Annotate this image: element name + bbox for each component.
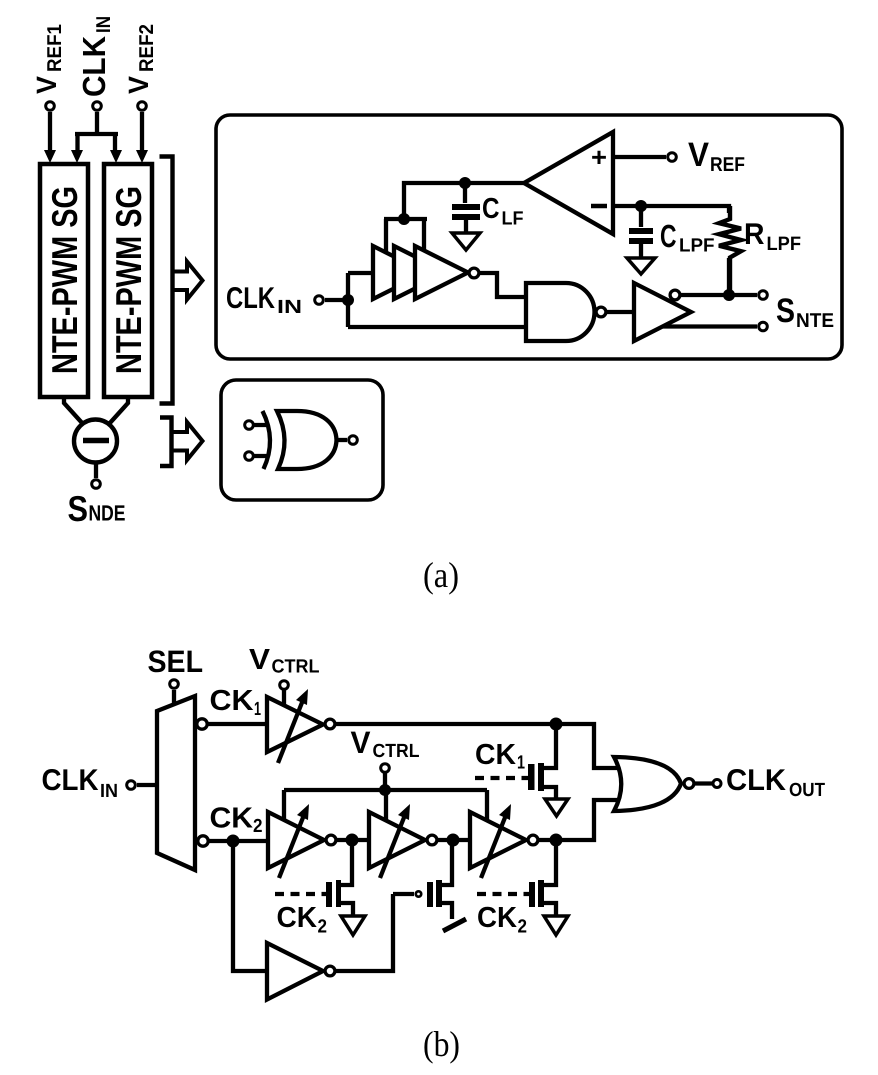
svg-text:NDE: NDE — [89, 501, 126, 526]
inverter chain T1 — [373, 246, 426, 299]
block NTE-PWM SG 2 — [104, 164, 152, 397]
wire NOR out — [695, 781, 712, 785]
svg-text:IN: IN — [93, 16, 115, 33]
terminal xor in top — [245, 421, 254, 430]
svg-text:REF: REF — [710, 154, 745, 176]
wire VREF1 arrow — [48, 112, 52, 151]
op-amp U1 — [524, 132, 613, 234]
variable inverter row2 first — [268, 812, 324, 868]
node CLKIN b label — [42, 764, 119, 802]
wire CLKIN b lead — [137, 783, 157, 787]
terminal SEL — [170, 680, 179, 689]
node CK2 label — [210, 803, 263, 838]
box a rounded rect — [216, 115, 842, 359]
node RLPF label — [744, 218, 801, 255]
bubble inverter row2 third — [528, 835, 538, 845]
inverter chain T2 — [394, 246, 447, 299]
svg-text:V: V — [351, 725, 371, 760]
node CLKIN rotated label — [76, 16, 115, 97]
node SNTE label — [776, 292, 834, 332]
demux trapezoid — [157, 696, 195, 870]
variable inverter row2 second — [369, 812, 425, 868]
transistor M3 pmos pass — [442, 840, 452, 919]
wire block2 to subtractor — [109, 397, 128, 424]
node SNDE label — [68, 488, 126, 529]
svg-text:NTE-PWM SG: NTE-PWM SG — [108, 186, 149, 374]
variable inverter row2 third — [470, 812, 526, 868]
node VREF2 rotated label — [123, 24, 158, 94]
feedback inverter — [267, 943, 323, 1000]
svg-text:(b): (b) — [423, 1024, 460, 1064]
svg-text:C: C — [482, 193, 500, 225]
variable inverter row1 — [267, 697, 323, 752]
capacitor CLF — [463, 183, 467, 203]
svg-text:V: V — [688, 136, 709, 174]
ground M4 — [544, 916, 568, 935]
svg-text:CK: CK — [210, 685, 254, 717]
node CLKOUT label — [726, 764, 825, 801]
node CLF label — [482, 193, 524, 230]
node CK1 label — [210, 685, 262, 720]
node VREF1 rotated label — [31, 24, 66, 94]
node VREF label — [688, 136, 745, 176]
junction VCTRL rail — [379, 784, 391, 796]
ground CLF — [452, 233, 480, 250]
terminal xor out — [349, 436, 358, 445]
wire buffer bottom output — [663, 324, 757, 328]
svg-text:V: V — [123, 76, 154, 94]
wire CLKIN input — [325, 273, 526, 327]
svg-text:SEL: SEL — [148, 644, 204, 679]
box xor rounded rect — [221, 380, 383, 500]
node SEL label — [148, 644, 204, 679]
wire buffer top output — [675, 293, 757, 297]
terminal CLKIN b — [127, 781, 136, 790]
bubble inverter row2 first — [326, 835, 336, 845]
open arrow 1 — [175, 262, 203, 300]
node CK2 M4 label — [477, 902, 527, 938]
bubble inverter row2 second — [427, 835, 437, 845]
terminal VCTRL row1 — [280, 681, 289, 690]
junction M3 drain — [447, 834, 460, 847]
wire CK2 down to feedback inverter — [233, 841, 267, 971]
node CLPF label — [660, 218, 715, 257]
block NTE-PWM SG 1 — [40, 164, 88, 397]
wire opamp minus to RLPF — [613, 206, 729, 213]
junction CK2 feedback — [227, 835, 240, 848]
wire VREF2 arrow — [140, 112, 144, 151]
svg-text:S: S — [776, 292, 795, 330]
svg-text:REF2: REF2 — [136, 24, 158, 72]
terminal VCTRL row2 — [381, 764, 390, 773]
wire inv2 to inv3 — [438, 838, 470, 842]
arrow variable inverter row1 — [278, 700, 303, 763]
terminal SNDE — [92, 480, 101, 489]
wire RLPF to output node — [727, 258, 731, 295]
svg-text:V: V — [249, 644, 271, 676]
wire VCTRL row1 lead — [282, 690, 286, 706]
terminal CK2 out of demux — [198, 836, 208, 846]
ground M1 — [545, 799, 568, 816]
svg-text:IN: IN — [277, 297, 302, 318]
terminal VREF2 — [138, 102, 147, 111]
buffer with complementary outputs — [634, 283, 691, 341]
wire CK1 row — [208, 722, 267, 726]
capacitor CLPF — [639, 206, 643, 227]
terminal CLKOUT — [713, 780, 721, 788]
bubble NOR — [684, 779, 694, 789]
svg-text:R: R — [744, 218, 765, 251]
bubble inverter row1 — [325, 719, 335, 729]
wire supply bar above inverter chain — [384, 219, 427, 252]
svg-text:CLK: CLK — [42, 764, 99, 797]
junction minus node — [635, 200, 647, 212]
junction row2 M4 — [550, 834, 563, 847]
svg-text:OUT: OUT — [789, 780, 825, 801]
NAND gate — [526, 283, 595, 341]
svg-text:S: S — [68, 488, 89, 529]
svg-text:C: C — [660, 218, 677, 254]
terminal xor in bottom — [245, 452, 254, 461]
M3 source slash — [443, 919, 466, 931]
node CK2 M2 label — [277, 902, 328, 938]
node CLKIN label box a — [226, 282, 302, 318]
inverter chain T3 — [415, 246, 468, 299]
terminal CLKIN box a — [315, 296, 324, 305]
resistor RLPF — [719, 206, 741, 295]
wire CLKIN split — [75, 112, 118, 151]
wire xor output — [336, 438, 347, 442]
terminal VREF — [668, 153, 677, 162]
node CK1 transistor label — [475, 739, 525, 774]
svg-text:1: 1 — [254, 699, 261, 720]
wire opamp plus to VREF — [613, 155, 666, 159]
svg-text:LF: LF — [502, 209, 524, 230]
transistor M4 CK2 — [544, 840, 556, 916]
wire row1 to NOR — [336, 724, 619, 768]
transistor M2 CK2 — [341, 840, 354, 916]
svg-text:CLK: CLK — [226, 282, 275, 315]
svg-text:LPF: LPF — [767, 233, 802, 255]
svg-text:2: 2 — [518, 917, 528, 938]
node VCTRL row2 label — [351, 725, 420, 762]
svg-text:(a): (a) — [423, 555, 459, 595]
wire inv1 to inv2 — [337, 838, 369, 842]
bubble buffer — [670, 290, 680, 300]
ground M2 — [341, 916, 365, 935]
wire subtractor to SNDE — [94, 462, 98, 478]
junction CLKIN — [342, 294, 354, 306]
NOR gate — [614, 757, 681, 811]
terminal VREF1 — [46, 102, 55, 111]
svg-text:NTE-PWM SG: NTE-PWM SG — [44, 186, 85, 374]
svg-text:1: 1 — [517, 753, 525, 774]
bracket 1 — [160, 157, 173, 404]
wire row2 to NOR — [539, 800, 619, 840]
svg-text:CK: CK — [475, 739, 516, 771]
wire feedback to M3 gate — [336, 894, 393, 971]
svg-text:CTRL: CTRL — [272, 657, 320, 678]
wire xor input leads — [254, 425, 269, 456]
terminal CK1 out of demux — [197, 719, 207, 729]
svg-text:V: V — [31, 76, 62, 94]
terminal CLKIN left — [93, 102, 102, 111]
svg-text:CLK: CLK — [76, 36, 112, 97]
label (a) — [423, 555, 459, 595]
terminal SNTE bottom — [759, 322, 768, 331]
bubble NAND — [596, 307, 606, 317]
junction row1 CK1 transistor — [550, 718, 563, 731]
bubble feedback inverter — [325, 966, 335, 976]
wire SEL lead — [172, 690, 176, 705]
bubble M3 gate — [416, 891, 421, 896]
svg-text:2: 2 — [253, 816, 263, 837]
wire CK2 row — [209, 839, 268, 843]
svg-text:LPF: LPF — [679, 236, 715, 257]
junction output node — [723, 289, 735, 301]
node VCTRL row1 label — [249, 644, 320, 678]
svg-text:CK: CK — [277, 902, 318, 934]
svg-text:+: + — [591, 142, 607, 172]
wire NAND to buffer — [607, 310, 634, 314]
svg-text:NTE: NTE — [796, 310, 834, 332]
svg-text:2: 2 — [318, 917, 328, 938]
xor gate — [263, 411, 271, 469]
junction M2 drain — [346, 834, 359, 847]
svg-text:CLK: CLK — [726, 764, 786, 797]
wire chain out to NAND — [480, 273, 526, 297]
wire VCTRL rail — [284, 773, 487, 820]
svg-text:CTRL: CTRL — [373, 741, 420, 762]
svg-text:CK: CK — [210, 803, 254, 835]
junction CLF node — [459, 177, 471, 189]
open arrow 2 — [174, 422, 203, 460]
transistor M1 CK1 — [544, 724, 556, 799]
bracket 2 — [160, 418, 172, 467]
wire M3 gate from feedback — [393, 892, 414, 896]
bubble inverter chain — [469, 268, 479, 278]
terminal SNTE top — [759, 291, 768, 300]
svg-text:REF1: REF1 — [44, 24, 66, 72]
subtractor circle — [74, 420, 117, 463]
ground CLPF — [627, 258, 655, 274]
svg-text:CK: CK — [477, 902, 517, 934]
wire opamp output — [404, 183, 524, 219]
wire block1 to subtractor — [64, 397, 83, 424]
svg-text:IN: IN — [100, 781, 118, 802]
junction supply bar — [398, 213, 410, 225]
label (b) — [423, 1024, 460, 1064]
